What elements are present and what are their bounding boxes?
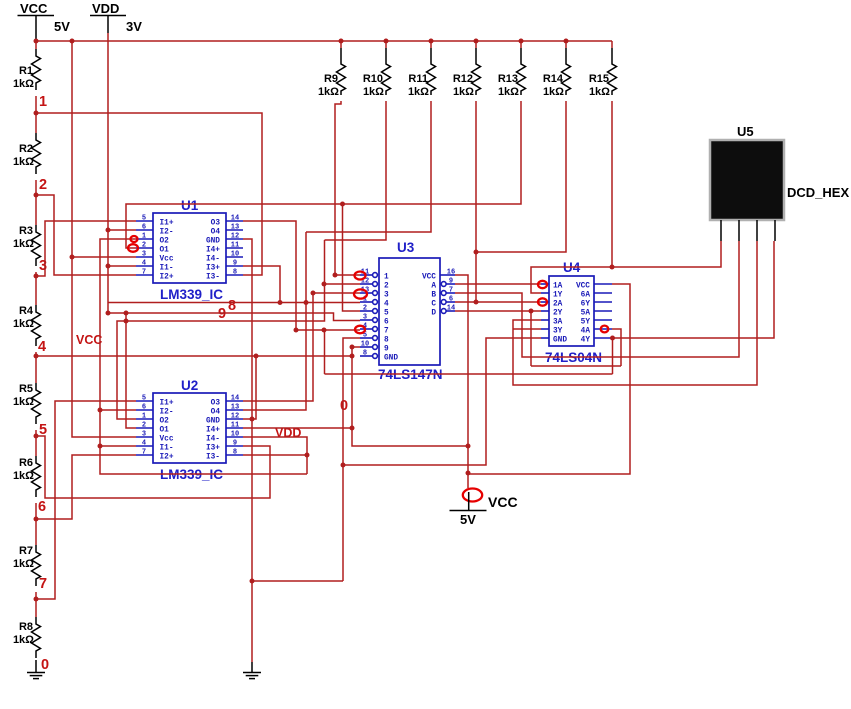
svg-text:8: 8	[363, 350, 367, 358]
resistor R3 1kOhm	[13, 225, 41, 266]
svg-text:6: 6	[449, 296, 453, 304]
svg-text:3: 3	[39, 258, 47, 274]
wire U1 pin9 riser x=280	[243, 266, 280, 303]
junction at (352,347)	[350, 345, 355, 350]
svg-text:14: 14	[231, 215, 239, 223]
svg-text:1kΩ: 1kΩ	[13, 634, 34, 646]
svg-text:3: 3	[384, 292, 389, 300]
svg-text:3: 3	[142, 251, 146, 259]
open-pin circle U1 pin1	[131, 236, 138, 242]
svg-text:2A: 2A	[553, 301, 563, 309]
svg-text:14: 14	[447, 305, 455, 313]
svg-text:5: 5	[142, 215, 146, 223]
junction at (341,41)	[339, 39, 344, 44]
svg-text:5A: 5A	[581, 310, 591, 318]
wire node3 to U1 pin5 I1+	[36, 221, 136, 276]
svg-text:11: 11	[231, 422, 239, 430]
resistor R8 1kOhm	[13, 617, 41, 658]
svg-text:R9: R9	[324, 73, 338, 85]
svg-text:R15: R15	[589, 73, 609, 85]
wire node1 to U1 pin8 I3-	[36, 113, 262, 275]
junction at (343,465)	[341, 463, 346, 468]
svg-text:1: 1	[142, 413, 146, 421]
svg-text:C: C	[431, 301, 436, 309]
junction at (280,302.5)	[278, 300, 283, 305]
open-pin circle U4 2A	[538, 298, 547, 305]
junction at (307,455)	[305, 453, 310, 458]
junction at (468,446)	[466, 444, 471, 449]
junction at (108,266)	[106, 264, 111, 269]
wire U3 D row to U4 2Y	[455, 310, 541, 312]
junction at (476,41)	[474, 39, 479, 44]
svg-text:1kΩ: 1kΩ	[13, 558, 34, 570]
resistor R10 1kOhm	[363, 41, 391, 98]
svg-text:7: 7	[449, 287, 453, 295]
svg-text:O1: O1	[160, 247, 170, 255]
svg-text:I3+: I3+	[206, 265, 220, 273]
svg-text:4Y: 4Y	[581, 337, 591, 345]
svg-text:6: 6	[142, 404, 146, 412]
svg-text:U3: U3	[397, 240, 415, 255]
svg-text:6: 6	[384, 319, 389, 327]
svg-text:8: 8	[384, 337, 389, 345]
wire x306 vertical to U2 pin13 O4	[243, 232, 306, 410]
svg-text:6: 6	[142, 224, 146, 232]
svg-text:LM339_IC: LM339_IC	[160, 287, 223, 302]
svg-text:1kΩ: 1kΩ	[13, 318, 34, 330]
svg-text:9: 9	[233, 440, 237, 448]
wire VCC 5V drop x=72 to U2 pin3	[72, 41, 136, 437]
junction at (386,41)	[384, 39, 389, 44]
wire net8 y=303 to U3 pin1 f4 row	[108, 302, 360, 304]
svg-text:4: 4	[142, 440, 146, 448]
junction at (36,436)	[34, 434, 39, 439]
open-pin circle U1 pin2	[128, 244, 138, 252]
wire U4 3Y stub	[513, 328, 541, 330]
svg-text:O4: O4	[211, 229, 221, 237]
wire U3 A to U4 1A	[455, 283, 541, 285]
svg-text:7: 7	[142, 449, 146, 457]
wire VDD to U1 pin4	[108, 265, 136, 267]
wire R14 elbow to R12 line	[476, 101, 566, 252]
svg-text:1kΩ: 1kΩ	[408, 86, 429, 98]
junction at (36,113)	[34, 111, 39, 116]
junction at (296,330)	[294, 328, 299, 333]
svg-text:10: 10	[231, 431, 239, 439]
ground for IC ground net	[243, 662, 261, 679]
svg-text:6Y: 6Y	[581, 301, 591, 309]
ground at ladder bottom	[27, 660, 45, 679]
svg-text:R13: R13	[498, 73, 518, 85]
wire node7 to U2 pin5 I1+	[36, 401, 136, 599]
junction at (521,41)	[519, 39, 524, 44]
junction at (256,356)	[254, 354, 259, 359]
svg-text:I2-: I2-	[160, 409, 174, 417]
wire U4 4A elbow	[612, 329, 621, 366]
wire x126 lower to U2 pin2 O1	[126, 313, 136, 428]
svg-text:2: 2	[142, 422, 146, 430]
wire R10 elbow to x324	[325, 101, 387, 240]
junction at (566,41)	[564, 39, 569, 44]
wire U3 f2 stub	[324, 283, 360, 285]
svg-text:VCC: VCC	[488, 494, 518, 510]
svg-text:9: 9	[449, 278, 453, 286]
wire R11 elbow to x306	[306, 101, 431, 232]
svg-text:12: 12	[231, 413, 239, 421]
svg-text:VCC: VCC	[76, 333, 102, 347]
svg-text:R12: R12	[453, 73, 473, 85]
open-pin circle U3 f3	[354, 289, 367, 298]
junction at (108,313)	[106, 311, 111, 316]
junction at (72,41)	[70, 39, 75, 44]
svg-text:Vcc: Vcc	[160, 436, 174, 444]
wire x100 to U2 pin6	[100, 409, 136, 411]
wire net9 branch x=342.5 to U3 pin2 f5 row	[343, 204, 361, 311]
svg-text:I1+: I1+	[160, 220, 174, 228]
svg-text:B: B	[431, 292, 436, 300]
svg-text:O3: O3	[211, 220, 221, 228]
wire R9 to U3 pin11 f1 row	[335, 101, 360, 275]
svg-text:1kΩ: 1kΩ	[13, 470, 34, 482]
svg-text:1kΩ: 1kΩ	[498, 86, 519, 98]
junction at (36,519)	[34, 517, 39, 522]
svg-text:7: 7	[384, 328, 389, 336]
junction at (313,293)	[311, 291, 316, 296]
junction at (335,275)	[333, 273, 338, 278]
junction at (324,284)	[322, 282, 327, 287]
svg-text:GND: GND	[206, 418, 220, 426]
wire U4 3A via y385 to U5 pin3	[513, 241, 757, 385]
junction at (126,321)	[124, 319, 129, 324]
svg-text:1A: 1A	[553, 283, 563, 291]
svg-text:3Y: 3Y	[553, 328, 563, 336]
svg-text:4: 4	[38, 339, 46, 355]
resistor R14 1kOhm	[543, 41, 571, 98]
wire U4 VCC drop x=630	[468, 284, 630, 474]
svg-text:1kΩ: 1kΩ	[13, 156, 34, 168]
wire U2 pin12 GND	[243, 356, 256, 419]
svg-text:R2: R2	[19, 143, 33, 155]
resistor R1 1kOhm	[13, 49, 41, 90]
svg-text:3V: 3V	[126, 19, 142, 34]
svg-text:1: 1	[39, 94, 47, 110]
svg-text:I2+: I2+	[160, 274, 174, 282]
svg-text:5Y: 5Y	[581, 319, 591, 327]
svg-text:DCD_HEX: DCD_HEX	[787, 185, 849, 200]
svg-text:U2: U2	[181, 378, 198, 393]
wire y374 under U3/U4 labels	[325, 373, 613, 375]
junction at (352,428)	[350, 426, 355, 431]
svg-text:16: 16	[447, 269, 455, 277]
junction at (252,581)	[250, 579, 255, 584]
svg-text:GND: GND	[553, 337, 567, 345]
junction at (476,252)	[474, 250, 479, 255]
svg-text:4A: 4A	[581, 328, 591, 336]
svg-text:Vcc: Vcc	[160, 256, 174, 264]
open-pin circle U4 1A	[538, 281, 547, 288]
svg-text:12: 12	[231, 233, 239, 241]
junction at (531,311)	[529, 309, 534, 314]
wire VDD vertical x=108	[107, 33, 109, 313]
power symbol VDD 3V	[90, 1, 142, 34]
svg-text:VDD: VDD	[92, 1, 119, 16]
svg-text:I1+: I1+	[160, 400, 174, 408]
open-pin circle U4 4A	[601, 326, 609, 333]
svg-text:1kΩ: 1kΩ	[453, 86, 474, 98]
svg-text:4: 4	[384, 301, 389, 309]
wire x343 ground net to U3 pin5 f8 row	[343, 338, 360, 581]
wire VCC rail y=41	[36, 40, 612, 42]
svg-text:9: 9	[384, 346, 389, 354]
svg-text:U5: U5	[737, 124, 754, 139]
svg-text:5V: 5V	[54, 19, 70, 34]
svg-text:U1: U1	[181, 198, 199, 213]
junction at (72,257)	[70, 255, 75, 260]
wire x352 branch to U3 pin10 f9 and y446	[352, 347, 468, 446]
svg-text:13: 13	[231, 224, 239, 232]
wire U4 4Y to U5 pin4	[612, 241, 774, 338]
op-amp comparator U2 LM339_IC	[136, 378, 243, 482]
svg-text:R7: R7	[19, 545, 33, 557]
wire node5 to U2 pin9 I3+	[36, 436, 270, 498]
svg-text:11: 11	[231, 242, 239, 250]
svg-text:R1: R1	[19, 65, 33, 77]
hex inverter U4 74LS04N	[541, 260, 612, 365]
wire U3 C to U4 2A	[455, 301, 541, 303]
junction at (36,356)	[34, 354, 39, 359]
encoder U3 74LS147N	[360, 240, 455, 382]
wire U1 pin1 O2 trunk to U2 refs	[100, 239, 307, 474]
svg-text:O2: O2	[160, 418, 170, 426]
svg-text:7: 7	[142, 269, 146, 277]
junction at (612.5,338)	[610, 336, 615, 341]
wire ground link y=581	[252, 580, 343, 582]
resistor R11 1kOhm	[408, 41, 436, 98]
svg-text:R5: R5	[19, 383, 33, 395]
resistor R5 1kOhm	[13, 383, 41, 424]
svg-text:GND: GND	[206, 238, 220, 246]
svg-text:6: 6	[38, 499, 46, 515]
svg-text:2: 2	[384, 283, 389, 291]
wire U3 VCC pin16 drop to 5V symbol	[455, 275, 468, 488]
junction at (100,446)	[98, 444, 103, 449]
open-pin circle U3 f1	[355, 272, 366, 280]
svg-text:I3-: I3-	[206, 274, 220, 282]
svg-text:5: 5	[384, 310, 389, 318]
wire node2 to U1 pin7 I2+	[36, 195, 136, 275]
svg-text:I2-: I2-	[160, 229, 174, 237]
junction at (324,330)	[322, 328, 327, 333]
junction at (108,230)	[106, 228, 111, 233]
svg-text:7: 7	[39, 576, 47, 592]
junction at (36,195)	[34, 193, 39, 198]
svg-text:5V: 5V	[460, 512, 476, 527]
wire net9 y=313 jog to U3 f6	[108, 313, 360, 321]
wire R13 net to U1 pin2 O1	[126, 101, 521, 248]
svg-text:1kΩ: 1kΩ	[13, 78, 34, 90]
svg-text:2Y: 2Y	[553, 310, 563, 318]
svg-text:I4+: I4+	[206, 247, 220, 255]
wire f7 branch x=324.5 down	[324, 330, 326, 374]
junction at (612,267)	[610, 265, 615, 270]
svg-text:8: 8	[228, 298, 236, 314]
display U5 DCD_HEX	[710, 124, 849, 241]
svg-text:R14: R14	[543, 73, 564, 85]
svg-text:VCC: VCC	[422, 274, 436, 282]
wire U2 pin11 to x352	[243, 427, 352, 429]
svg-text:D: D	[431, 310, 436, 318]
svg-text:1: 1	[142, 233, 146, 241]
power symbol VCC 5V	[18, 1, 71, 41]
junction at (36,41)	[34, 39, 39, 44]
wire U4 1Y to U5 pin1	[531, 241, 721, 293]
svg-text:1kΩ: 1kΩ	[13, 238, 34, 250]
junction at (352,356)	[350, 354, 355, 359]
svg-text:I4-: I4-	[206, 256, 220, 264]
wire U2 pin14 O3 to U3 f3 row	[243, 293, 360, 401]
svg-text:2: 2	[363, 305, 367, 313]
svg-text:13: 13	[231, 404, 239, 412]
svg-text:O4: O4	[211, 409, 221, 417]
resistor R7 1kOhm	[13, 545, 41, 586]
junction at (36,599)	[34, 597, 39, 602]
svg-text:O1: O1	[160, 427, 170, 435]
resistor R12 1kOhm	[453, 41, 481, 98]
svg-text:R4: R4	[19, 305, 34, 317]
svg-text:R8: R8	[19, 621, 33, 633]
junction at (468,473)	[466, 471, 471, 476]
svg-text:I3+: I3+	[206, 445, 220, 453]
svg-text:2: 2	[142, 242, 146, 250]
resistor R13 1kOhm	[498, 41, 526, 98]
svg-text:I1-: I1-	[160, 265, 174, 273]
resistor R2 1kOhm	[13, 133, 41, 174]
svg-text:I2+: I2+	[160, 454, 174, 462]
svg-text:14: 14	[231, 395, 239, 403]
op-amp comparator U1 LM339_IC	[136, 198, 243, 302]
resistor R4 1kOhm	[13, 305, 41, 346]
wire U2 pin10 VDD-net riser	[243, 437, 307, 474]
svg-text:0: 0	[41, 657, 49, 673]
svg-text:6A: 6A	[581, 292, 591, 300]
wire ground net y=465 to U4 GND	[343, 338, 541, 465]
svg-text:I4+: I4+	[206, 427, 220, 435]
wire R15 drop to pin1 net	[611, 101, 613, 267]
svg-text:1kΩ: 1kΩ	[589, 86, 610, 98]
svg-text:8: 8	[233, 269, 237, 277]
svg-text:A: A	[431, 283, 436, 291]
svg-text:3: 3	[363, 314, 367, 322]
svg-text:3: 3	[142, 431, 146, 439]
junction at (36,276)	[34, 274, 39, 279]
svg-text:1: 1	[384, 274, 389, 282]
junction at (306,302.5)	[304, 300, 309, 305]
svg-text:9: 9	[233, 260, 237, 268]
wire x531 lower to y366	[530, 311, 532, 366]
svg-text:0: 0	[340, 398, 348, 414]
junction at (126,313)	[124, 311, 129, 316]
wire y366 2Y to 4A	[531, 365, 621, 367]
svg-text:O3: O3	[211, 400, 221, 408]
wire U2 pin1 O2 via y321 up to R10 net	[117, 240, 325, 419]
svg-text:R10: R10	[363, 73, 383, 85]
svg-text:I3-: I3-	[206, 454, 220, 462]
svg-text:4: 4	[142, 260, 146, 268]
power symbol VCC 5V (bottom)	[450, 489, 518, 528]
svg-text:R11: R11	[408, 73, 428, 85]
wire x100 to U2 pin4	[100, 445, 136, 447]
svg-text:VCC: VCC	[576, 283, 590, 291]
wire x72 to U1 pin3	[72, 256, 136, 258]
svg-text:GND: GND	[384, 355, 398, 363]
svg-text:10: 10	[231, 251, 239, 259]
wire node4 trunk y=356	[36, 355, 352, 357]
svg-text:R6: R6	[19, 457, 33, 469]
junction at (252,419)	[250, 417, 255, 422]
svg-text:VCC: VCC	[20, 1, 48, 16]
junction at (342.5,204)	[340, 202, 345, 207]
svg-text:2: 2	[39, 177, 47, 193]
svg-text:9: 9	[218, 306, 226, 322]
junction at (476,302)	[474, 300, 479, 305]
resistor R15 1kOhm	[589, 41, 617, 98]
junction at (100,410)	[98, 408, 103, 413]
resistor R9 1kOhm	[318, 41, 346, 98]
svg-text:I4-: I4-	[206, 436, 220, 444]
wire riser 4Y stub to y374	[612, 338, 614, 374]
svg-text:I1-: I1-	[160, 445, 174, 453]
svg-text:3A: 3A	[553, 319, 563, 327]
open-pin circle U3 f7	[355, 326, 365, 334]
junction at (431,41)	[429, 39, 434, 44]
svg-text:R3: R3	[19, 225, 33, 237]
wire VDD to U1 pin6	[108, 229, 136, 231]
svg-text:10: 10	[361, 341, 369, 349]
svg-text:1kΩ: 1kΩ	[318, 86, 339, 98]
svg-text:8: 8	[233, 449, 237, 457]
svg-text:1kΩ: 1kΩ	[13, 396, 34, 408]
resistor R6 1kOhm	[13, 456, 41, 497]
svg-text:1kΩ: 1kΩ	[543, 86, 564, 98]
wire U1 pin12 GND down to ground	[243, 239, 252, 662]
svg-text:5: 5	[142, 395, 146, 403]
svg-text:1Y: 1Y	[553, 292, 563, 300]
wire U2 pin8 stub	[243, 454, 307, 456]
wire ladder spine x=36	[35, 41, 37, 617]
wire U3 B to U5 pin2	[455, 241, 739, 357]
wire U1 pin14 O3 to U3 pin4 f7 row	[243, 221, 360, 330]
wire R12 pullup drop	[475, 101, 477, 302]
wire node6 to U2 pin7 I2+	[36, 455, 136, 519]
svg-text:O2: O2	[160, 238, 170, 246]
svg-text:1kΩ: 1kΩ	[363, 86, 384, 98]
